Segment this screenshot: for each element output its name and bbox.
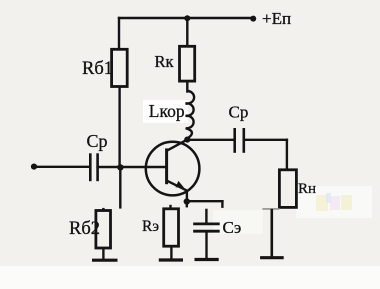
wire cap to base of transistor: [98, 166, 167, 168]
wire left drop to Rb1: [118, 18, 120, 50]
wire below Rb1 down to base junction: [118, 86, 120, 166]
wire below base junction: [119, 167, 121, 207]
svg-text:Rб1: Rб1: [82, 59, 113, 79]
capacitor Ce top lead: [205, 209, 207, 224]
node top rail junction: [184, 15, 190, 21]
svg-text:Lкор: Lкор: [149, 101, 185, 121]
resistor Rk: [180, 46, 195, 81]
capacitor Cp input: [90, 153, 97, 181]
resistor Rb2 top stub: [102, 208, 104, 211]
wire Rk to inductor: [186, 81, 188, 92]
transistor Q1 emitter arrowhead: [176, 181, 185, 188]
svg-text:Ср: Ср: [229, 102, 249, 121]
node emitter junction: [184, 198, 190, 204]
wire top rail: [119, 17, 253, 19]
resistor Re bottom stub: [170, 246, 172, 260]
capacitor Ce plates: [193, 224, 220, 231]
node +Ep terminal dot: [250, 16, 256, 22]
svg-text:Rэ: Rэ: [142, 218, 159, 235]
node input terminal dot: [31, 164, 37, 170]
resistor Re: [164, 209, 179, 246]
wire input terminal to cap: [33, 166, 90, 168]
node collector junction: [184, 137, 190, 143]
resistor Rb2 bottom stub: [102, 248, 104, 260]
wire Rk branch drop: [186, 18, 188, 47]
resistor Rb2: [96, 211, 111, 249]
transistor Q1 emitter drop: [186, 190, 188, 202]
resistor Rn: [279, 170, 296, 208]
wire corner down to Rn: [286, 140, 288, 170]
svg-text:Сэ: Сэ: [223, 218, 242, 237]
transistor Q1 circle: [146, 142, 200, 196]
wire emitter node stub down: [186, 202, 188, 207]
ground under Rb2: [92, 259, 118, 262]
wire collector node to output cap: [187, 139, 234, 141]
transistor Q1 collector lead: [167, 140, 187, 151]
inductor Lkor: [186, 91, 194, 138]
svg-text:Rк: Rк: [155, 52, 175, 71]
svg-text:+Еп: +Еп: [262, 9, 291, 28]
transistor Q1 emitter lead: [167, 181, 187, 191]
ground under Rn: [260, 256, 284, 259]
resistor Re top stub: [169, 205, 171, 209]
ground under Ce: [195, 258, 219, 261]
capacitor Ce bottom lead: [205, 231, 207, 259]
node base junction: [117, 164, 123, 170]
capacitor Cp output: [235, 128, 244, 153]
wire emitter node to right: [187, 200, 223, 202]
svg-text:Ср: Ср: [87, 131, 108, 151]
svg-text:Rн: Rн: [298, 181, 316, 197]
transistor Q1 base bar: [165, 148, 168, 184]
wire Rn down lead: [270, 209, 273, 257]
wire hook down at end of emitter wire: [221, 201, 223, 207]
wire output cap to corner: [244, 139, 287, 141]
wire faint link under Rn: [262, 208, 279, 210]
svg-text:Rб2: Rб2: [69, 219, 100, 239]
ground under Re: [159, 258, 183, 261]
resistor Rb1: [112, 49, 128, 86]
